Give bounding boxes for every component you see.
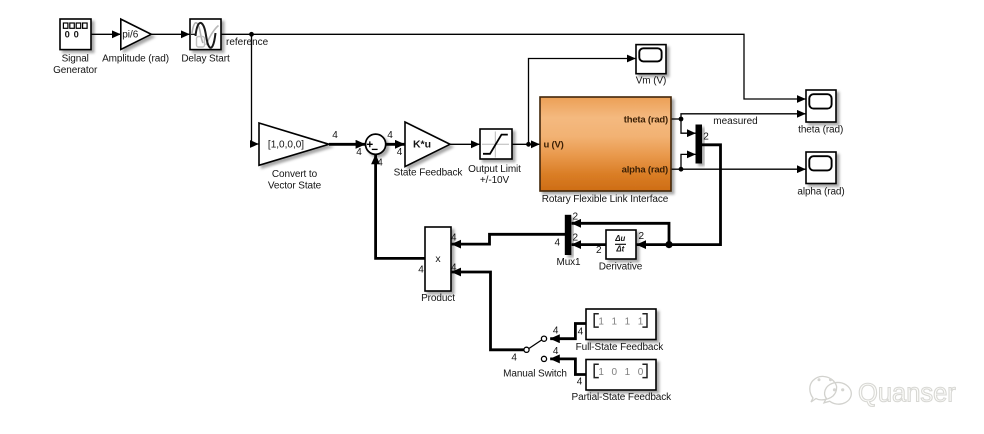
svg-text:4: 4 [451, 263, 457, 274]
label 2 near Mux1 input 1 [573, 212, 579, 223]
label Signal Generator [53, 53, 98, 76]
wire Product output feedback to Sum minus input (width 4) [376, 155, 425, 259]
svg-text:Mux1: Mux1 [556, 257, 581, 268]
scope Vm (V) [636, 45, 666, 74]
svg-text:4: 4 [553, 346, 559, 357]
block Derivative [606, 230, 636, 259]
wire Amplitude gain to Delay Start [151, 33, 189, 35]
svg-text:4: 4 [577, 377, 583, 388]
svg-text:1: 1 [612, 316, 618, 327]
svg-text:Vm (V): Vm (V) [636, 76, 667, 87]
label State Feedback [394, 168, 464, 179]
label 4 near Mux1 output [554, 237, 560, 248]
label 4 under switch output wire [511, 352, 517, 363]
svg-text:1: 1 [598, 316, 604, 327]
gain Convert to Vector State [1,0,0,0] [259, 123, 329, 165]
label alpha (rad) [797, 186, 844, 197]
label 4 near Product input 1 [451, 232, 457, 243]
wire junction to Derivative input (width 2) [637, 243, 669, 246]
svg-text:alpha (rad): alpha (rad) [622, 165, 668, 176]
label Derivative [599, 262, 643, 273]
wire State Feedback to Output Limit [451, 143, 480, 145]
label 4 near Product input 2 [451, 263, 457, 274]
svg-text:4: 4 [511, 352, 517, 363]
svg-text:4: 4 [397, 147, 403, 158]
svg-text:Full-State Feedback: Full-State Feedback [576, 342, 665, 353]
label Delay Start [181, 53, 230, 64]
svg-text:reference: reference [226, 37, 269, 48]
node alpha junction [679, 167, 684, 172]
block Rotary Flexible Link Interface [540, 97, 671, 191]
label 4 on Sum output [387, 130, 393, 141]
label 2 near Mux1 input 2 [573, 233, 579, 244]
node feedback junction [665, 241, 672, 248]
label 4 near State Feedback input [397, 147, 403, 158]
svg-text:1: 1 [598, 367, 604, 378]
wire Derivative output to Mux1 input 2 (width 2) [572, 243, 606, 246]
svg-text:Manual Switch: Manual Switch [503, 369, 567, 380]
label reference [226, 37, 269, 48]
wire Output Limit to plant u(V) [512, 143, 540, 145]
svg-text:State Feedback: State Feedback [394, 168, 464, 179]
label Manual Switch [503, 369, 567, 380]
wire Mux1 output to Product input 1 (width 4) [452, 234, 565, 244]
svg-text:2: 2 [573, 212, 579, 223]
block Delay Start [190, 19, 221, 50]
label Amplitude (rad) [102, 53, 169, 64]
scope theta (rad) [806, 90, 836, 122]
wire u(V) branch up to Vm scope [529, 59, 636, 145]
svg-text:4: 4 [553, 325, 559, 336]
label 4 near switch lower contact [553, 346, 559, 357]
label 4 near Full-State Feedback output [578, 327, 584, 338]
label 4 near Sum minus input [377, 158, 383, 169]
svg-text:4: 4 [332, 130, 338, 141]
wire junction up and left to Mux1 input 1 (width 2) [572, 223, 669, 244]
gain State Feedback K*u [405, 122, 450, 167]
wire alpha to Mux input 2 [681, 154, 696, 169]
svg-text:[1,0,0,0]: [1,0,0,0] [268, 140, 304, 151]
wire Mux output down to Derivative/Mux1 feedback (width 2) [669, 145, 721, 245]
svg-text:0: 0 [638, 367, 644, 378]
svg-text:2: 2 [703, 132, 709, 143]
svg-text:Convert to: Convert to [272, 169, 318, 180]
label Full-State Feedback [576, 342, 665, 353]
label Mux1 [556, 257, 581, 268]
svg-text:Amplitude (rad): Amplitude (rad) [102, 53, 169, 64]
label Product [421, 293, 455, 304]
svg-text:1: 1 [625, 316, 631, 327]
svg-text:0 0: 0 0 [65, 30, 80, 40]
wire alpha to alpha scope [681, 168, 806, 170]
svg-text:Partial-State Feedback: Partial-State Feedback [572, 392, 673, 403]
svg-text:1: 1 [625, 367, 631, 378]
label 4 near switch upper contact [553, 325, 559, 336]
svg-text:Δt: Δt [615, 244, 624, 253]
svg-text:4: 4 [387, 130, 393, 141]
svg-text:Δu: Δu [614, 234, 625, 243]
label 4 near Partial-State Feedback output [577, 377, 583, 388]
svg-text:Signal: Signal [62, 53, 89, 64]
svg-text:1: 1 [638, 316, 644, 327]
svg-text:0: 0 [612, 367, 618, 378]
svg-text:4: 4 [578, 327, 584, 338]
svg-text:4: 4 [418, 265, 424, 276]
scope alpha (rad) [806, 152, 836, 184]
svg-text:pi/6: pi/6 [122, 30, 139, 41]
svg-text:alpha (rad): alpha (rad) [797, 186, 844, 197]
manual switch [524, 336, 547, 361]
label 2 near Derivative input [639, 231, 645, 242]
wire Full-State Feedback to switch upper contact (width 4) [550, 324, 586, 339]
svg-text:Output Limit: Output Limit [468, 164, 521, 175]
wire Convert to Vector State to Sum (width 4) [329, 143, 365, 146]
label theta (rad) [798, 124, 843, 135]
block Output Limit saturation [480, 129, 512, 159]
node u(V) branch junction [526, 142, 531, 147]
label Output Limit +/-10V [468, 164, 521, 186]
block Full-State Feedback constant [1 1 1 1] [586, 309, 656, 340]
svg-text:theta (rad): theta (rad) [624, 114, 668, 125]
node theta junction [679, 117, 684, 122]
label Convert to Vector State [268, 169, 322, 192]
watermark Quanser text [858, 380, 956, 408]
svg-text:4: 4 [554, 237, 560, 248]
wire Sum to State Feedback gain (width 4) [386, 143, 405, 146]
mux Mux1 [565, 215, 572, 255]
mux (2-signal) [696, 125, 703, 164]
svg-text:Rotary Flexible Link Interface: Rotary Flexible Link Interface [542, 194, 669, 205]
svg-text:2: 2 [596, 245, 602, 256]
label Rotary Flexible Link Interface [542, 194, 669, 205]
block Partial-State Feedback constant [1 0 1 0] [586, 360, 656, 391]
svg-text:measured: measured [713, 116, 757, 127]
svg-text:4: 4 [451, 232, 457, 243]
svg-text:Derivative: Derivative [599, 262, 643, 273]
svg-text:+/-10V: +/-10V [480, 175, 510, 186]
label 4 on Convert output [332, 130, 338, 141]
label 4 near Sum input [356, 147, 362, 158]
wire Manual Switch output to Product input 2 (width 4) [452, 272, 524, 350]
svg-text:x: x [435, 253, 441, 265]
svg-text:Product: Product [421, 293, 455, 304]
label measured [713, 116, 757, 127]
node reference branch junction [249, 32, 254, 37]
svg-text:Delay Start: Delay Start [181, 53, 230, 64]
wire theta(rad) output stub [671, 118, 681, 120]
svg-text:Vector State: Vector State [268, 181, 322, 192]
wire Signal Generator to Amplitude gain [91, 33, 121, 35]
svg-text:Generator: Generator [53, 65, 98, 76]
sum block [366, 134, 386, 154]
wire measured: theta to theta scope input 2 [681, 114, 806, 119]
svg-text:K*u: K*u [413, 139, 431, 151]
gain Amplitude (rad) pi/6 [121, 19, 151, 49]
block Signal Generator [60, 19, 91, 50]
label 2 near Derivative output [596, 245, 602, 256]
wire alpha(rad) output stub [671, 168, 681, 170]
svg-text:4: 4 [356, 147, 362, 158]
svg-text:Quanser: Quanser [858, 380, 956, 408]
svg-text:2: 2 [573, 233, 579, 244]
label 2 on mux output [703, 132, 709, 143]
label Partial-State Feedback [572, 392, 673, 403]
wire theta to Mux input 1 [681, 119, 696, 133]
svg-text:4: 4 [377, 158, 383, 169]
block Product [425, 227, 451, 291]
svg-text:theta (rad): theta (rad) [798, 124, 843, 135]
wire reference: Delay Start output running right along top [221, 34, 806, 99]
label Vm (V) [636, 76, 667, 87]
svg-text:u (V): u (V) [544, 140, 564, 151]
watermark Quanser logo [810, 376, 852, 404]
svg-text:2: 2 [639, 231, 645, 242]
wire Partial-State Feedback to switch lower contact (width 4) [550, 359, 586, 375]
label 4 near Product output [418, 265, 424, 276]
wire reference branch down to Convert to Vector State [252, 34, 259, 144]
